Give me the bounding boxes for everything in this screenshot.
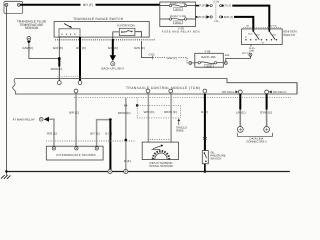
node jumper junction [109, 118, 112, 121]
svg-text:BR/W (E): BR/W (E) [118, 111, 131, 115]
svg-text:F-08: F-08 [205, 49, 211, 53]
svg-text:WIRE: WIRE [176, 129, 184, 133]
node ground bus terminal 2 [124, 169, 128, 173]
svg-text:(F01): (F01) [175, 8, 181, 11]
svg-text:B/Y (F): B/Y (F) [83, 3, 93, 7]
svg-text:B (E): B (E) [124, 159, 131, 163]
node ST terminal [249, 53, 252, 56]
svg-text:(F02): (F02) [175, 21, 181, 24]
wire BR/W (E) ground [125, 98, 127, 170]
svg-text:G/W (F): G/W (F) [166, 56, 177, 60]
svg-text:(J/B): (J/B) [249, 50, 254, 53]
wire R (F) [196, 5, 199, 7]
shield wire label [178, 121, 180, 126]
wire B/R (E) TCM to intermediate sensor [75, 94, 77, 146]
node shield drain junction 2 [136, 104, 139, 107]
data link connector-2 [237, 126, 243, 132]
svg-text:BR/B (E): BR/B (E) [51, 67, 63, 71]
node TCM pin top 1 [57, 81, 61, 85]
node TCM pin bottom 2 [146, 89, 150, 93]
net HO CAN H [269, 91, 272, 94]
wire R/G (E) [49, 119, 54, 146]
svg-text:BR/W (E): BR/W (E) [164, 110, 177, 114]
back-up light feed [112, 37, 114, 39]
TCM bottom connector dashed [74, 96, 291, 98]
svg-text:B (E): B (E) [105, 132, 112, 136]
connector dotted edge [5, 0, 20, 2]
fuse and relay box F-03 [160, 2, 196, 26]
wire B/Y jumper [97, 120, 111, 147]
svg-text:SENSOR: SENSOR [25, 26, 39, 30]
node shield drain junction 1 [125, 104, 128, 107]
TCM transaxle control module [15, 79, 297, 95]
svg-text:TRANSAXLE RANGE SWITCH: TRANSAXLE RANGE SWITCH [73, 17, 124, 21]
svg-text:TRANSAXLE CONTROL MODULE (TCM): TRANSAXLE CONTROL MODULE (TCM) [126, 86, 200, 90]
svg-text:B/R (J): B/R (J) [224, 15, 233, 19]
wire B/R (J) [222, 17, 254, 31]
svg-text:W/R (E): W/R (E) [144, 110, 155, 114]
TCM break squiggle [13, 79, 16, 95]
svg-text:HO CAN H: HO CAN H [273, 90, 287, 94]
svg-text:FUSE AND RELAY BOX: FUSE AND RELAY BOX [162, 30, 200, 34]
wire B (E) oil pressure [204, 94, 206, 151]
svg-text:B/R (F): B/R (F) [197, 15, 206, 19]
node junction [58, 57, 61, 60]
TCM top connector dotted [57, 76, 83, 78]
svg-text:INTERMEDIATE SENSOR: INTERMEDIATE SENSOR [56, 153, 96, 157]
svg-text:HO CAN L: HO CAN L [222, 90, 236, 94]
node TCM pin CAN L [238, 90, 242, 94]
svg-text:BACK 10A: BACK 10A [201, 55, 215, 59]
node TCM pin bottom 3 [169, 89, 173, 93]
input/turbine speed sensor [148, 139, 172, 141]
svg-text:B (E): B (E) [201, 110, 208, 114]
oil pressure switch [202, 151, 208, 164]
svg-text:(F08): (F08) [206, 65, 212, 68]
svg-text:B/R (E): B/R (E) [76, 46, 86, 50]
svg-text:R (J): R (J) [225, 4, 231, 8]
node TCM pin top 2 [78, 81, 82, 85]
svg-text:C-04: C-04 [213, 1, 219, 4]
switch S1 contact block [59, 29, 80, 37]
svg-text:B/R (E): B/R (E) [69, 110, 79, 114]
ignition switch [242, 29, 283, 45]
svg-text:IG KEY 1 30A: IG KEY 1 30A [170, 2, 186, 5]
wire BR/W (E) signal [170, 94, 172, 143]
wire R position right lead [135, 32, 142, 37]
connector pin strip [55, 39, 155, 41]
svg-text:J-05: J-05 [214, 20, 219, 23]
svg-text:GY/R (E): GY/R (E) [260, 110, 272, 114]
svg-text:IG KEY 2 30A: IG KEY 2 30A [170, 15, 186, 18]
node ground bus terminal 1 [108, 169, 112, 173]
wire B/R (F) [196, 16, 197, 18]
svg-text:1D-0 B: 1D-0 B [270, 24, 277, 27]
svg-text:SWITCH: SWITCH [210, 157, 221, 161]
svg-text:ACC: ACC [248, 33, 253, 36]
wire B/Y (F) feed [20, 4, 160, 6]
svg-text:SPEED SENSOR: SPEED SENSOR [149, 164, 174, 168]
shield wire outline [137, 105, 180, 118]
node fuse output [224, 61, 227, 64]
svg-text:G/W (E): G/W (E) [22, 46, 33, 50]
ground bus [6, 171, 289, 173]
svg-text:A45: A45 [225, 54, 230, 57]
transaxle range switch [54, 22, 149, 38]
wire oil switch to ground [204, 164, 206, 172]
svg-text:L/R (E): L/R (E) [236, 110, 246, 114]
svg-text:B/Y (E): B/Y (E) [90, 132, 100, 136]
wire G/W (F) dashed [153, 57, 165, 59]
inline connector [203, 137, 207, 139]
wire G/W (E) sensor lead [29, 44, 59, 59]
node terminal left [5, 3, 8, 6]
wire W/R (E) [147, 94, 149, 143]
wire BR/B (E) to TCM [58, 59, 60, 67]
svg-text:G/W (E): G/W (E) [134, 46, 145, 50]
svg-text:SWITCH: SWITCH [283, 33, 295, 37]
wire G/W to C-02 [142, 41, 153, 58]
node TCM pin bottom 1 [74, 89, 78, 93]
ignition switch ST pin [250, 45, 252, 47]
svg-text:C-02: C-02 [148, 53, 155, 57]
node fuse input [189, 61, 192, 64]
svg-text:R (F): R (F) [199, 4, 206, 8]
svg-text:R POSITION: R POSITION [117, 23, 134, 27]
wire B/R (E) [79, 37, 81, 81]
wire GY/R (E) CAN [266, 94, 268, 110]
wire R (J) [222, 6, 269, 31]
wire G/O (E) [58, 37, 60, 59]
node TCM pin bottom 4 [203, 89, 207, 93]
svg-text:G/O (E): G/O (E) [53, 46, 63, 50]
wire B (E) to ground [109, 120, 111, 170]
wire R position left lead [113, 32, 120, 37]
intermediate sensor connector strip [46, 140, 135, 142]
node TCM pin CAN H [265, 90, 269, 94]
wire L/R (E) CAN [239, 94, 241, 110]
intermediate sensor [46, 146, 103, 160]
svg-text:CONNECTOR-2: CONNECTOR-2 [246, 140, 267, 144]
svg-text:AT MAIN RELAY: AT MAIN RELAY [13, 117, 35, 121]
gear [153, 151, 169, 159]
wire ground lead left [5, 6, 7, 171]
connector box top-left [4, 2, 23, 14]
fuse F08 [195, 62, 198, 64]
ground [5, 172, 7, 176]
svg-text:R/G (E): R/G (E) [47, 132, 57, 136]
wire fuse to ignition switch [226, 56, 251, 61]
svg-text:BACK-UP LIGHT: BACK-UP LIGHT [101, 66, 124, 70]
node terminal right [17, 3, 20, 6]
